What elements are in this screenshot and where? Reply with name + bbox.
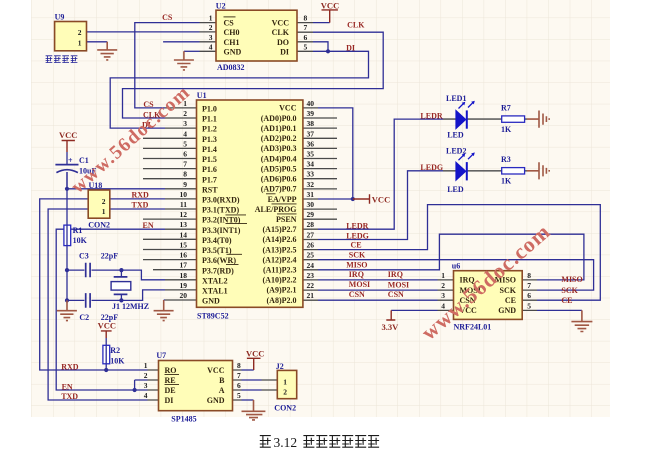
svg-text:37: 37 — [307, 129, 315, 138]
power texts red — [59, 0, 399, 358]
svg-text:(AD3)P0.3: (AD3)P0.3 — [261, 144, 297, 153]
svg-text:MISO: MISO — [346, 261, 367, 270]
wire net VCC EA row40 to row31 — [318, 108, 353, 199]
svg-text:(A11)P2.3: (A11)P2.3 — [263, 266, 297, 275]
svg-text:(AD6)P0.6: (AD6)P0.6 — [261, 175, 297, 184]
svg-text:RO: RO — [165, 366, 177, 375]
svg-text:P3.5(T1): P3.5(T1) — [202, 246, 232, 255]
svg-text:5: 5 — [183, 139, 187, 148]
svg-text:5: 5 — [304, 42, 308, 51]
wire net CSN — [318, 299, 438, 301]
svg-text:2: 2 — [441, 281, 445, 290]
svg-text:3.3V: 3.3V — [382, 322, 400, 332]
wire U7 pin7 to J2 pin1 — [242, 379, 262, 381]
wire crystal leads — [120, 270, 122, 300]
svg-text:U7: U7 — [156, 351, 166, 360]
U2 pin names left column — [224, 19, 242, 57]
LED2 — [456, 152, 475, 180]
svg-text:(AD4)P0.4: (AD4)P0.4 — [261, 154, 297, 163]
U2 pin numbers 8-5 — [304, 14, 308, 52]
ground below U2 — [174, 51, 194, 70]
svg-text:XTAL1: XTAL1 — [202, 287, 228, 296]
wire net CLK U2 pin7 to U1 pin2 — [123, 32, 384, 118]
svg-text:C2: C2 — [79, 313, 89, 322]
U2 pin names right column — [272, 19, 290, 57]
svg-text:26: 26 — [307, 241, 315, 250]
svg-text:22: 22 — [307, 281, 315, 290]
U1 active-low overlines EA PROG PSEN — [266, 194, 297, 214]
svg-text:32: 32 — [307, 180, 315, 189]
svg-text:38: 38 — [307, 119, 315, 128]
svg-text:LED1: LED1 — [446, 94, 466, 103]
svg-text:33: 33 — [307, 170, 315, 179]
svg-text:U9: U9 — [55, 13, 65, 22]
svg-text:17: 17 — [180, 261, 188, 270]
svg-text:SCK: SCK — [561, 286, 578, 295]
part U7 body — [159, 361, 233, 411]
svg-text:EN: EN — [143, 221, 154, 230]
power VCC at U1 pin31 — [353, 194, 370, 204]
power VCC above R2 — [101, 331, 112, 338]
svg-text:P1.5: P1.5 — [202, 155, 217, 164]
svg-text:P1.4: P1.4 — [202, 145, 217, 154]
svg-text:19: 19 — [180, 281, 188, 290]
svg-text:4: 4 — [209, 42, 213, 51]
svg-text:(A8)P2.0: (A8)P2.0 — [267, 296, 297, 305]
svg-text:(A15)P2.7: (A15)P2.7 — [263, 225, 297, 234]
svg-text:12: 12 — [180, 210, 188, 219]
svg-text:16: 16 — [180, 251, 188, 260]
svg-text:7: 7 — [183, 160, 187, 169]
svg-text:LEDG: LEDG — [346, 231, 369, 240]
svg-text:2: 2 — [209, 23, 213, 32]
part J2 body — [277, 370, 296, 398]
svg-text:DI: DI — [346, 43, 355, 52]
U1 active-low overlines INT0 INT1 WR RD — [226, 215, 248, 265]
svg-text:R2: R2 — [110, 346, 120, 355]
wire u6 GND pin5 — [537, 309, 582, 311]
svg-text:2: 2 — [78, 28, 82, 37]
u6 pin names left column — [460, 276, 481, 316]
svg-text:CE: CE — [561, 296, 572, 305]
resistor R2 — [103, 345, 110, 364]
wire through R1 — [66, 225, 68, 246]
wire net TXD — [48, 209, 165, 400]
svg-text:IRQ: IRQ — [349, 270, 364, 279]
wire net IRQ — [318, 279, 438, 281]
svg-text:(AD1)P0.1: (AD1)P0.1 — [261, 124, 297, 133]
svg-text:P1.0: P1.0 — [202, 105, 217, 114]
svg-text:CSN: CSN — [388, 290, 404, 299]
svg-text:P1.6: P1.6 — [202, 165, 217, 174]
pin stubs U2 — [200, 23, 314, 52]
svg-text:3: 3 — [441, 291, 445, 300]
svg-text:CS: CS — [162, 13, 173, 22]
J2 pin numbers — [283, 377, 287, 396]
svg-text:4: 4 — [144, 391, 148, 400]
svg-text:(A9)P2.1: (A9)P2.1 — [267, 286, 297, 295]
ground after R3 sideways — [527, 162, 549, 179]
svg-text:21: 21 — [307, 291, 315, 300]
U7 pin names left column — [165, 366, 177, 405]
U2 pin numbers 1-4 — [209, 14, 213, 52]
svg-text:6: 6 — [527, 291, 531, 300]
svg-text:35: 35 — [307, 150, 315, 159]
svg-text:DO: DO — [277, 38, 289, 47]
svg-text:3: 3 — [183, 119, 187, 128]
ground below U7 pin5 — [242, 400, 266, 420]
svg-text:6: 6 — [183, 150, 187, 159]
svg-text:P3.6(WR): P3.6(WR) — [202, 256, 236, 265]
svg-text:1: 1 — [144, 361, 148, 370]
svg-text:1K: 1K — [501, 125, 512, 134]
svg-text:2: 2 — [144, 371, 148, 380]
wire U2 DO to DI junction — [313, 42, 328, 52]
svg-text:10K: 10K — [73, 236, 88, 245]
svg-text:8: 8 — [304, 14, 308, 23]
wire through R2 — [105, 345, 107, 364]
capacitor C1 — [55, 165, 78, 189]
svg-text:(AD7)P0.7: (AD7)P0.7 — [261, 185, 297, 194]
power VCC top-left — [62, 141, 75, 153]
svg-text:15: 15 — [180, 241, 188, 250]
svg-text:6: 6 — [304, 33, 308, 42]
svg-text:(A10)P2.2: (A10)P2.2 — [263, 276, 297, 285]
svg-text:GND: GND — [207, 396, 225, 405]
power VCC above U2 — [322, 10, 338, 23]
svg-text:1: 1 — [78, 38, 82, 47]
part U1 body — [197, 100, 303, 307]
svg-text:28: 28 — [307, 220, 315, 229]
svg-text:23: 23 — [307, 271, 315, 280]
U9 pin numbers — [78, 28, 82, 47]
svg-text:P3.7(RD): P3.7(RD) — [202, 266, 234, 275]
svg-text:CE: CE — [351, 241, 362, 250]
svg-text:25: 25 — [307, 251, 315, 260]
svg-text:13: 13 — [180, 220, 188, 229]
svg-text:P3.1(TXD): P3.1(TXD) — [202, 206, 239, 215]
svg-text:VCC: VCC — [246, 349, 264, 359]
svg-text:VCC: VCC — [372, 194, 390, 204]
svg-text:7: 7 — [237, 371, 241, 380]
crystal J1 — [111, 277, 131, 295]
svg-text:CON2: CON2 — [274, 403, 296, 412]
svg-text:ALE/PROG: ALE/PROG — [255, 205, 297, 214]
wire net EN — [56, 229, 165, 390]
red net labels — [61, 13, 583, 401]
svg-text:34: 34 — [307, 160, 315, 169]
svg-text:TXD: TXD — [132, 201, 149, 210]
svg-text:30: 30 — [307, 200, 315, 209]
pin stubs J2 — [262, 380, 278, 390]
svg-text:RXD: RXD — [132, 191, 150, 200]
wire U7 pin6 to J2 pin2 — [242, 389, 262, 391]
svg-text:LED: LED — [447, 185, 464, 194]
svg-text:U2: U2 — [216, 1, 226, 10]
svg-text:(AD2)P0.2: (AD2)P0.2 — [261, 134, 297, 143]
svg-text:11: 11 — [180, 200, 187, 209]
U2 CS overline — [224, 16, 236, 18]
svg-text:P1.1: P1.1 — [202, 115, 217, 124]
part u6 body — [454, 271, 523, 320]
svg-text:DI: DI — [280, 47, 289, 56]
wire R2 leads — [105, 338, 107, 370]
svg-text:P3.0(RXD): P3.0(RXD) — [202, 196, 240, 205]
part U2 body — [216, 10, 297, 61]
svg-text:2: 2 — [283, 387, 287, 396]
svg-text:+: + — [68, 156, 73, 165]
svg-text:1: 1 — [283, 377, 287, 386]
wire net DI U2 pin5 to U1 pin3 — [110, 51, 368, 128]
power VCC above U7 pin8 — [247, 358, 261, 370]
svg-text:EA/VPP: EA/VPP — [268, 195, 297, 204]
ground after R7 sideways — [527, 111, 549, 128]
wire net CE — [318, 205, 600, 301]
svg-text:4: 4 — [183, 129, 187, 138]
capacitor C2 — [86, 293, 90, 308]
svg-text:7: 7 — [527, 281, 531, 290]
svg-text:1: 1 — [102, 207, 106, 216]
svg-text:DI: DI — [165, 396, 174, 405]
svg-text:EN: EN — [62, 383, 73, 392]
svg-text:SCK: SCK — [500, 286, 517, 295]
svg-text:P1.7: P1.7 — [202, 175, 217, 184]
svg-text:5: 5 — [527, 301, 531, 310]
svg-text:CE: CE — [505, 296, 516, 305]
svg-text:18: 18 — [180, 271, 188, 280]
svg-text:u6: u6 — [452, 262, 460, 271]
wire U2 VCC pin8 — [313, 22, 330, 24]
svg-text:(A12)P2.4: (A12)P2.4 — [263, 255, 297, 264]
svg-text:GND: GND — [498, 306, 516, 315]
U18 pin numbers — [102, 197, 106, 216]
svg-text:CLK: CLK — [347, 20, 365, 29]
svg-text:MISO: MISO — [561, 275, 582, 284]
svg-text:3: 3 — [144, 381, 148, 390]
svg-text:B: B — [219, 376, 225, 385]
svg-text:10: 10 — [180, 190, 188, 199]
svg-text:GND: GND — [202, 297, 220, 306]
svg-text:LEDG: LEDG — [420, 163, 443, 172]
svg-text:CS: CS — [224, 19, 235, 28]
svg-text:22pF: 22pF — [101, 252, 118, 261]
svg-text:(A14)P2.6: (A14)P2.6 — [263, 235, 297, 244]
svg-text:P1.2: P1.2 — [202, 125, 217, 134]
wire U1 GND pin20 — [164, 299, 165, 301]
resistor R1 — [64, 225, 71, 246]
svg-text:CH1: CH1 — [224, 38, 240, 47]
svg-text:RST: RST — [202, 185, 218, 194]
svg-text:VCC: VCC — [279, 104, 297, 113]
svg-text:GND: GND — [224, 47, 242, 56]
wire RE-DE tie — [135, 380, 148, 390]
svg-text:8: 8 — [527, 271, 531, 280]
svg-text:IRQ: IRQ — [388, 270, 403, 279]
wire U9 pin1 to ground — [87, 41, 108, 43]
svg-text:TXD: TXD — [61, 392, 78, 401]
wire RST row — [67, 188, 165, 190]
svg-text:J2: J2 — [276, 362, 284, 371]
wire U7 pin5 to ground — [242, 399, 254, 401]
svg-text:24: 24 — [307, 261, 315, 270]
svg-text:RXD: RXD — [61, 363, 79, 372]
svg-text:(A13)P2.5: (A13)P2.5 — [263, 245, 297, 254]
wire VCC rail C1 R1 gnd — [66, 152, 68, 300]
svg-text:10K: 10K — [110, 357, 125, 366]
svg-text:LED2: LED2 — [446, 147, 466, 156]
svg-text:29: 29 — [307, 210, 315, 219]
svg-text:AD0832: AD0832 — [217, 63, 245, 72]
u6 pin numbers 1-4 — [441, 271, 445, 311]
svg-text:LED: LED — [447, 131, 464, 140]
ground below U1 pin20 — [154, 300, 174, 321]
svg-text:27: 27 — [307, 231, 315, 240]
U7 pin numbers 1-4 — [144, 361, 148, 400]
svg-text:XTAL2: XTAL2 — [202, 276, 228, 285]
svg-text:P1.3: P1.3 — [202, 135, 217, 144]
wire net MOSI — [318, 289, 438, 291]
designators navy — [55, 1, 512, 423]
svg-text:R1: R1 — [73, 226, 83, 235]
ground below u6 pin5 — [571, 310, 592, 331]
ground below C2 rail — [57, 300, 77, 320]
svg-text:R7: R7 — [501, 104, 511, 113]
svg-text:2: 2 — [102, 197, 106, 206]
wire U9 pin2 to U2 CH0 — [87, 31, 200, 33]
svg-text:3: 3 — [209, 33, 213, 42]
wire U2 CH1 stub left — [163, 41, 199, 43]
svg-text:14: 14 — [180, 230, 188, 239]
pin stubs U7 — [148, 370, 242, 400]
svg-text:MOSI: MOSI — [349, 280, 370, 289]
U1 pin numbers 40-21 — [307, 99, 315, 300]
power 3.3V at u6 pin4 — [386, 310, 395, 320]
svg-text:MOSI: MOSI — [388, 281, 409, 290]
wire net RXD — [40, 199, 165, 370]
svg-text:RE: RE — [165, 376, 176, 385]
part U18 body — [88, 190, 110, 218]
svg-text:C3: C3 — [79, 252, 89, 261]
svg-text:1: 1 — [441, 271, 445, 280]
svg-text:CSN: CSN — [349, 290, 365, 299]
pin stubs U1 left — [143, 108, 197, 300]
wire C3 row — [67, 270, 165, 280]
U7 pin names right column — [207, 366, 225, 405]
ground below U9 — [97, 42, 117, 60]
svg-text:3.12: 3.12 — [274, 435, 298, 450]
capacitor C3 — [86, 263, 90, 278]
svg-text:40: 40 — [307, 99, 315, 108]
svg-text:7: 7 — [304, 23, 308, 32]
wire LED1 row segments — [443, 118, 527, 120]
svg-text:J1 12MHZ: J1 12MHZ — [112, 302, 149, 311]
resistor R3 — [502, 168, 525, 174]
wire net SCK — [318, 260, 594, 290]
svg-text:8: 8 — [237, 361, 241, 370]
u6 pin names right column — [495, 276, 517, 316]
svg-text:ST89C52: ST89C52 — [197, 312, 229, 321]
svg-text:CH0: CH0 — [224, 28, 240, 37]
pin stubs u6 — [438, 280, 538, 311]
resistor R7 — [502, 116, 525, 122]
svg-text:VCC: VCC — [98, 321, 116, 331]
svg-text:P3.4(T0): P3.4(T0) — [202, 236, 232, 245]
wire u6 VCC pin4 to 3.3V — [391, 309, 437, 311]
wire U7 pin8 to VCC — [242, 369, 254, 371]
svg-text:2: 2 — [183, 109, 187, 118]
svg-text:(AD0)P0.0: (AD0)P0.0 — [261, 114, 297, 123]
U1 pin names right column — [255, 104, 297, 305]
U9 chinese label — [46, 56, 78, 63]
svg-text:VCC: VCC — [321, 0, 339, 10]
wire LED2 row segments — [443, 170, 527, 172]
svg-text:VCC: VCC — [272, 19, 290, 28]
svg-text:39: 39 — [307, 109, 315, 118]
svg-text:U1: U1 — [197, 91, 207, 100]
svg-text:R3: R3 — [501, 155, 511, 164]
wire net MISO — [318, 234, 584, 280]
svg-text:1K: 1K — [501, 177, 512, 186]
U1 pin names left column — [202, 105, 241, 306]
svg-text:36: 36 — [307, 139, 315, 148]
wire U2 GND to ground — [184, 50, 200, 52]
part U9 body — [55, 22, 87, 51]
svg-text:5: 5 — [237, 391, 241, 400]
svg-text:PSEN: PSEN — [276, 215, 297, 224]
wire net LEDR — [318, 119, 443, 229]
pin stubs U1 right — [303, 108, 337, 300]
svg-text:6: 6 — [237, 381, 241, 390]
svg-text:SCK: SCK — [349, 251, 366, 260]
U7 pin numbers 8-5 — [237, 361, 241, 400]
svg-text:(AD5)P0.5: (AD5)P0.5 — [261, 164, 297, 173]
U1 pin numbers 1-20 — [180, 99, 188, 300]
LED1 — [456, 101, 475, 129]
wire net CS U2 to U1 pin1 — [135, 23, 200, 108]
caption — [260, 435, 379, 450]
svg-text:8: 8 — [183, 170, 187, 179]
svg-text:SP1485: SP1485 — [171, 414, 196, 423]
svg-text:P3.3(INT1): P3.3(INT1) — [202, 226, 241, 235]
svg-text:20: 20 — [180, 291, 188, 300]
svg-text:9: 9 — [183, 180, 187, 189]
svg-text:CON2: CON2 — [88, 220, 110, 229]
svg-text:LEDR: LEDR — [420, 111, 442, 120]
svg-text:CLK: CLK — [272, 28, 290, 37]
u6 pin numbers 8-5 — [527, 271, 531, 311]
svg-text:DE: DE — [165, 386, 176, 395]
svg-text:1: 1 — [209, 14, 213, 23]
svg-text:VCC: VCC — [59, 130, 77, 140]
svg-text:VCC: VCC — [207, 366, 225, 375]
svg-text:A: A — [219, 386, 225, 395]
svg-text:LEDR: LEDR — [346, 222, 368, 231]
wire C2 row — [67, 290, 165, 301]
svg-text:31: 31 — [307, 190, 315, 199]
U7 RO RE underlines — [165, 374, 180, 384]
wire net LEDG — [318, 171, 443, 240]
svg-text:NRF24L01: NRF24L01 — [454, 323, 492, 332]
